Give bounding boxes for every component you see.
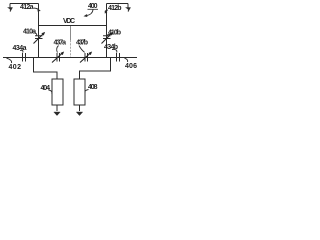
wire feed to resistor 408 <box>80 58 111 80</box>
leader 437a <box>57 46 59 53</box>
leader 408 <box>85 90 89 94</box>
leader 412a <box>34 8 39 10</box>
svg-text:404: 404 <box>41 85 51 92</box>
svg-text:406: 406 <box>125 63 137 70</box>
variable arrow of 410b <box>102 33 113 44</box>
leader 410b <box>107 35 110 37</box>
leader 410a <box>35 33 37 36</box>
wire VDC rail <box>39 25 107 27</box>
svg-text:434b: 434b <box>104 44 118 51</box>
ground arrow below 404 <box>56 105 58 111</box>
variable capacitor 437a plates <box>57 53 60 62</box>
variable capacitor 437b plates <box>85 53 88 62</box>
terminal arrow 412a (left port, down arrow) <box>9 4 11 9</box>
terminal arrow 412b (right port, down arrow) <box>127 4 129 9</box>
leader 412b <box>105 10 108 12</box>
variable arrow of 437b <box>80 53 91 63</box>
wire top-right horizontal <box>107 3 129 5</box>
leader 402 <box>7 58 12 63</box>
capacitor 434a plates <box>23 53 26 62</box>
svg-text:412b: 412b <box>108 5 122 12</box>
wire center vertical (VDC feed) <box>70 26 72 41</box>
wire feed to resistor 404 <box>34 58 58 80</box>
leader 406 <box>125 58 128 62</box>
svg-text:408: 408 <box>88 84 98 91</box>
capacitor 434b plates <box>117 53 120 62</box>
figure arrow 400 <box>87 10 94 16</box>
variable arrow of 410a <box>34 33 45 44</box>
svg-text:412a: 412a <box>20 4 34 11</box>
variable arrow of 437a <box>52 53 63 63</box>
svg-text:437b: 437b <box>76 40 88 47</box>
leader 434a <box>20 50 23 52</box>
svg-text:434a: 434a <box>13 45 27 52</box>
svg-text:437a: 437a <box>54 40 67 47</box>
svg-text:402: 402 <box>9 64 22 71</box>
svg-text:410b: 410b <box>108 29 121 36</box>
leader 437b <box>79 46 85 53</box>
underline of 400 <box>88 8 99 10</box>
resistor 404 (box) <box>52 79 63 105</box>
leader 434b <box>112 49 117 52</box>
variable capacitor 410a plates <box>35 36 43 39</box>
variable capacitor 410b plates <box>103 36 111 39</box>
wire top-left horizontal <box>10 3 39 5</box>
svg-text:VDC: VDC <box>63 18 75 25</box>
ground arrow below 408 <box>79 105 81 111</box>
wire left vertical <box>38 4 40 58</box>
leader 404 <box>49 90 52 94</box>
wire main horizontal line <box>3 57 137 59</box>
wire right vertical <box>106 4 108 58</box>
svg-text:410a: 410a <box>23 29 36 36</box>
resistor 408 (box) <box>74 79 85 105</box>
